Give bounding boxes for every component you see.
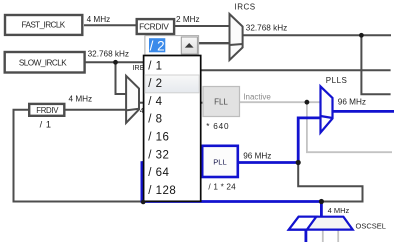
svg-text:32.768 kHz: 32.768 kHz [246,24,287,33]
svg-text:/ 2: / 2 [148,78,162,90]
svg-text:FAST_IRCLK: FAST_IRCLK [22,21,66,30]
svg-text:/ 8: / 8 [148,114,162,126]
svg-text:OSCSEL: OSCSEL [356,222,386,231]
svg-text:96 MHz: 96 MHz [338,98,366,107]
svg-text:4 MHz: 4 MHz [328,206,350,215]
svg-text:96 MHz: 96 MHz [243,152,271,161]
svg-text:IRCS: IRCS [235,3,256,12]
svg-text:4 MHz: 4 MHz [87,15,111,24]
svg-text:/ 1 * 24: / 1 * 24 [208,183,236,192]
svg-text:4 MHz: 4 MHz [69,95,93,104]
svg-text:/ 1: / 1 [148,60,162,72]
svg-text:SLOW_IRCLK: SLOW_IRCLK [19,58,67,67]
svg-text:* 640: * 640 [206,122,229,131]
svg-text:FLL: FLL [214,98,228,107]
svg-text:FRDIV: FRDIV [36,106,59,115]
svg-text:FCRDIV: FCRDIV [139,22,169,32]
svg-text:/ 4: / 4 [148,96,162,108]
svg-text:32.768 kHz: 32.768 kHz [88,49,129,58]
svg-text:/ 2: / 2 [150,39,165,54]
svg-text:Inactive: Inactive [243,93,271,102]
svg-text:PLL: PLL [213,157,227,166]
svg-text:/ 1: / 1 [40,120,52,130]
svg-text:/ 64: / 64 [148,167,169,179]
svg-text:/ 16: / 16 [148,132,169,144]
svg-text:PLLS: PLLS [326,76,348,85]
svg-text:/ 128: / 128 [148,185,176,197]
svg-text:/ 32: / 32 [148,149,169,161]
svg-text:2 MHz: 2 MHz [176,15,200,24]
